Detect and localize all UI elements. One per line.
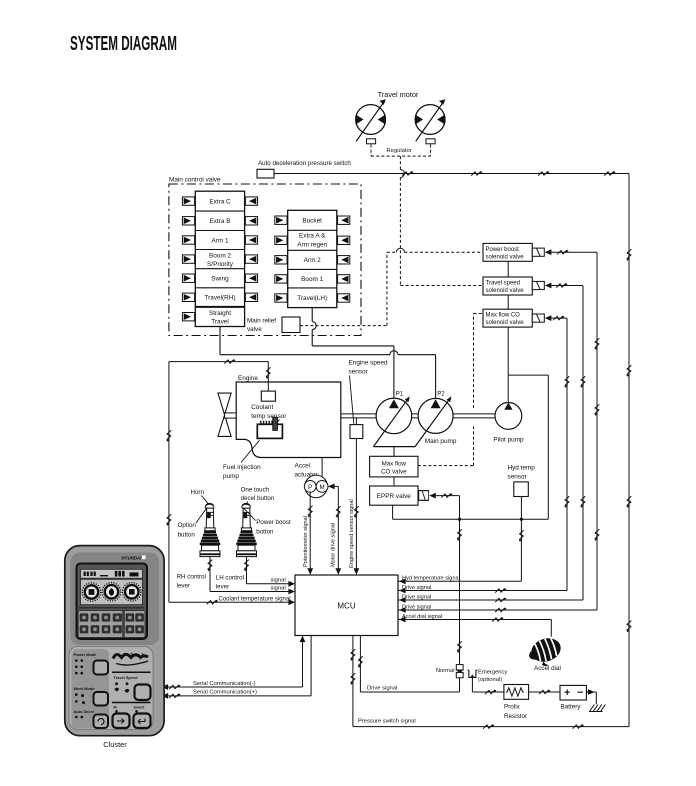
svg-text:P1: P1 — [396, 391, 404, 397]
svg-text:Main pump: Main pump — [425, 438, 457, 445]
svg-text:Serial Communication(+): Serial Communication(+) — [193, 690, 257, 696]
svg-text:Motor drive signal: Motor drive signal — [331, 523, 337, 567]
svg-text:Extra A &: Extra A & — [299, 233, 326, 240]
svg-text:Drive signal: Drive signal — [402, 594, 431, 600]
svg-text:Horn: Horn — [191, 489, 205, 496]
svg-text:Boom 1: Boom 1 — [301, 276, 323, 283]
svg-text:Bucket: Bucket — [302, 218, 322, 225]
svg-text:Arm regen: Arm regen — [297, 242, 327, 249]
svg-text:Drive signal: Drive signal — [367, 686, 397, 692]
svg-text:Hyd temperature signal: Hyd temperature signal — [402, 576, 460, 582]
svg-text:MCU: MCU — [337, 601, 355, 610]
svg-text:Pilot pump: Pilot pump — [493, 437, 524, 444]
svg-text:lever: lever — [216, 584, 229, 591]
svg-text:button: button — [178, 531, 196, 538]
svg-text:Max flow CO: Max flow CO — [486, 313, 521, 319]
svg-text:LH control: LH control — [216, 574, 244, 581]
svg-text:solenoid valve: solenoid valve — [486, 320, 525, 326]
svg-text:lever: lever — [177, 583, 190, 590]
svg-text:Travel(RH): Travel(RH) — [204, 295, 235, 302]
svg-text:Swing: Swing — [211, 276, 229, 283]
svg-text:decel button: decel button — [241, 495, 275, 502]
svg-text:Battery: Battery — [561, 704, 582, 711]
svg-text:RH control: RH control — [177, 573, 206, 580]
svg-text:M: M — [114, 706, 117, 710]
svg-text:signal: signal — [271, 578, 286, 584]
svg-text:Auto deceleration pressure swi: Auto deceleration pressure switch — [258, 160, 351, 167]
svg-text:Max flow: Max flow — [382, 460, 407, 467]
svg-text:Cluster: Cluster — [103, 740, 127, 749]
svg-text:Accel dial signal: Accel dial signal — [402, 614, 442, 620]
svg-text:sensor: sensor — [349, 369, 369, 376]
svg-text:Drive signal: Drive signal — [402, 604, 431, 610]
svg-text:P2: P2 — [437, 391, 445, 397]
svg-text:Extra C: Extra C — [209, 199, 231, 206]
svg-text:Power boost: Power boost — [256, 519, 291, 526]
svg-text:Serial Communication(-): Serial Communication(-) — [193, 681, 256, 687]
svg-text:EPPR valve: EPPR valve — [377, 493, 412, 500]
svg-text:Extra B: Extra B — [210, 218, 231, 225]
svg-text:Arm 1: Arm 1 — [211, 237, 228, 244]
svg-text:Main relief: Main relief — [247, 318, 276, 325]
svg-text:pump: pump — [223, 473, 239, 480]
svg-text:Auto Decel: Auto Decel — [74, 709, 94, 714]
svg-text:Resistor: Resistor — [504, 713, 527, 720]
svg-text:Travel motor: Travel motor — [378, 90, 419, 99]
svg-text:Straight: Straight — [209, 310, 231, 317]
svg-text:solenoid valve: solenoid valve — [486, 288, 525, 294]
svg-text:Potentiometer signal: Potentiometer signal — [303, 516, 309, 567]
svg-text:Normal: Normal — [436, 668, 455, 674]
svg-text:One touch: One touch — [241, 486, 270, 493]
svg-text:Travel speed: Travel speed — [486, 280, 520, 286]
svg-text:Fuel injection: Fuel injection — [223, 464, 261, 471]
svg-text:S/Priority: S/Priority — [207, 261, 234, 268]
svg-text:HYUNDAI: HYUNDAI — [122, 556, 142, 561]
svg-text:solenoid valve: solenoid valve — [486, 254, 525, 260]
svg-text:Engine speed: Engine speed — [349, 359, 389, 366]
svg-text:Hyd temp: Hyd temp — [508, 465, 536, 472]
svg-text:valve: valve — [247, 326, 262, 333]
svg-text:Arm 2: Arm 2 — [304, 257, 321, 264]
svg-text:Pressure switch signal: Pressure switch signal — [358, 718, 416, 724]
svg-text:M: M — [320, 484, 325, 491]
svg-text:Prolix: Prolix — [504, 704, 521, 711]
svg-text:(optional): (optional) — [478, 677, 502, 683]
svg-text:Work Mode: Work Mode — [74, 686, 96, 691]
svg-text:CO valve: CO valve — [381, 469, 407, 476]
svg-text:Accel: Accel — [295, 462, 311, 469]
svg-text:Travel Speed: Travel Speed — [114, 675, 139, 680]
svg-text:Option: Option — [178, 522, 197, 529]
svg-text:Select: Select — [134, 706, 146, 710]
svg-text:Drive signal: Drive signal — [402, 585, 431, 591]
svg-text:sensor: sensor — [508, 474, 528, 481]
svg-text:Coolant temperature signal: Coolant temperature signal — [219, 597, 291, 603]
svg-text:temp sensor: temp sensor — [251, 413, 287, 420]
svg-text:Boom 2: Boom 2 — [209, 253, 231, 260]
svg-text:SYSTEM DIAGRAM: SYSTEM DIAGRAM — [70, 33, 177, 55]
svg-text:Engine: Engine — [238, 375, 258, 382]
svg-text:P: P — [308, 484, 312, 491]
svg-text:button: button — [256, 528, 274, 535]
svg-text:Emergency: Emergency — [478, 669, 507, 675]
svg-text:signal: signal — [271, 585, 286, 591]
svg-text:Power Mode: Power Mode — [74, 652, 98, 657]
svg-text:Travel: Travel — [211, 318, 229, 325]
svg-text:Main control valve: Main control valve — [169, 177, 221, 184]
svg-text:Regulator: Regulator — [387, 148, 412, 154]
svg-text:Accel dial: Accel dial — [534, 665, 561, 672]
svg-text:Travel(LH): Travel(LH) — [297, 295, 327, 302]
svg-text:Coolant: Coolant — [251, 404, 273, 411]
svg-text:Engine speed sensor signal: Engine speed sensor signal — [349, 499, 355, 568]
svg-text:Power boost: Power boost — [486, 247, 520, 253]
